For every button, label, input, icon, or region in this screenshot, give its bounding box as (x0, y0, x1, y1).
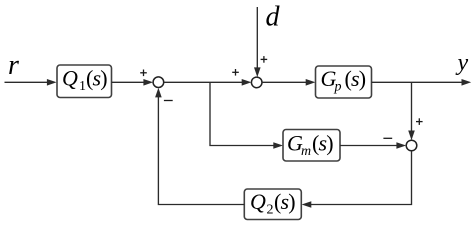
svg-text:(s): (s) (345, 66, 366, 91)
node d input label (266, 2, 281, 33)
label plus left at S2 (232, 69, 239, 76)
wire S2 to Gp (262, 79, 315, 86)
label minus at S3 (383, 137, 392, 139)
wire Gm to sum S3 (340, 142, 406, 149)
wire Gp to output y (372, 79, 472, 86)
wire Q2 left and up to S1 (155, 88, 244, 205)
block Gm (283, 130, 340, 162)
svg-text:p: p (334, 80, 342, 95)
svg-text:Q: Q (62, 66, 78, 91)
label minus at S1 (164, 100, 173, 102)
node r input label (8, 50, 19, 81)
wire y branch down to S3 (408, 82, 415, 140)
svg-text:m: m (301, 144, 311, 159)
wire branch down to Gm (210, 82, 283, 149)
wire S3 down and left to Q2 (302, 151, 412, 208)
svg-text:1: 1 (79, 79, 86, 94)
block Q1 (57, 65, 112, 98)
svg-text:y: y (456, 50, 469, 76)
svg-text:2: 2 (267, 203, 274, 218)
wire S1 to sum S2 (164, 79, 252, 86)
svg-text:(s): (s) (86, 66, 107, 91)
wire r to Q1 (5, 79, 57, 86)
svg-text:(s): (s) (312, 130, 333, 155)
label plus at S1 (140, 70, 147, 77)
summing junction S2 (251, 77, 262, 88)
label plus top at S2 (261, 56, 268, 63)
svg-text:Q: Q (250, 189, 266, 214)
block Gp (316, 66, 372, 98)
svg-text:(s): (s) (274, 189, 295, 214)
svg-text:d: d (266, 2, 281, 33)
block Q2 (244, 189, 301, 220)
label plus top at S3 (416, 118, 423, 125)
summing junction S1 (153, 77, 164, 88)
wire Q1 to sum S1 (112, 79, 154, 86)
svg-text:r: r (8, 50, 19, 81)
node y output label (456, 50, 469, 76)
wire d to S2 (254, 7, 261, 77)
summing junction S3 (406, 140, 417, 151)
